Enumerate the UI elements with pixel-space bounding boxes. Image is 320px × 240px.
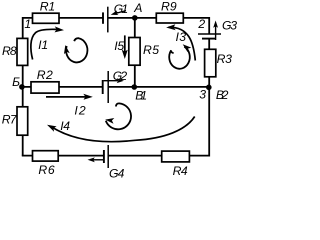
current arrow I1	[31, 26, 64, 59]
current arrow I4	[46, 117, 195, 142]
wire top-right: G1 to node 2	[108, 17, 209, 19]
resistor R5	[129, 38, 140, 66]
node A	[132, 15, 138, 21]
svg-text:G1: G1	[114, 2, 128, 16]
battery G3	[198, 34, 221, 39]
wire middle-right: G2 to node 3	[108, 86, 209, 88]
resistor R8	[17, 38, 28, 65]
svg-text:I1: I1	[38, 38, 48, 52]
mesh loop arrow (top-left mesh)	[62, 38, 87, 62]
svg-text:Б: Б	[12, 75, 20, 89]
svg-text:I4: I4	[60, 119, 70, 133]
svg-text:R3: R3	[217, 52, 233, 66]
resistor R6	[33, 151, 59, 161]
svg-text:I3: I3	[176, 30, 187, 44]
wire left: node 1 to bottom-left corner	[22, 17, 24, 156]
battery G4	[104, 145, 108, 168]
battery G4 emf arrow	[88, 157, 104, 162]
node B (left)	[19, 84, 25, 90]
battery G1 emf arrow	[110, 10, 126, 17]
svg-text:R8: R8	[2, 44, 17, 58]
resistor R4	[162, 151, 190, 162]
resistor R3	[205, 49, 216, 77]
svg-text:R6: R6	[38, 163, 55, 177]
svg-text:2: 2	[197, 17, 205, 31]
wire right-upper: node 2 to G3	[208, 17, 210, 34]
battery G3 emf arrow	[213, 21, 218, 41]
wire top-left: node 1 to G1	[23, 17, 103, 19]
svg-text:R7: R7	[2, 112, 18, 126]
node 3	[206, 85, 212, 91]
svg-text:B1: B1	[135, 89, 147, 103]
battery G1	[103, 7, 108, 33]
svg-text:1: 1	[24, 17, 31, 31]
node B1	[132, 84, 138, 90]
svg-text:G2: G2	[113, 69, 128, 83]
svg-text:R1: R1	[40, 0, 55, 14]
svg-text:R4: R4	[173, 164, 188, 178]
mesh loop arrow (bottom mesh)	[105, 103, 131, 129]
svg-text:I2: I2	[74, 103, 85, 117]
wire middle-left: node B to G2	[23, 86, 103, 88]
svg-text:R9: R9	[161, 0, 177, 13]
wire center vertical: node A to node B1	[134, 18, 136, 87]
current arrow I3	[166, 24, 195, 60]
wire bottom-left: corner to G4	[22, 155, 104, 157]
battery G2	[103, 71, 109, 103]
svg-text:R5: R5	[143, 43, 159, 57]
current arrow I5	[122, 35, 128, 59]
wire right-lower: G3 to bottom-right corner	[208, 39, 210, 157]
svg-text:3: 3	[199, 87, 206, 101]
resistor R9	[156, 13, 183, 23]
resistor R1	[33, 13, 60, 23]
mesh loop arrow (top-right mesh, counterclockwise)	[169, 42, 191, 69]
svg-text:A: A	[133, 1, 142, 15]
resistor R2	[31, 82, 59, 93]
svg-text:G4: G4	[109, 167, 125, 179]
svg-text:G3: G3	[222, 19, 237, 33]
current arrow I2	[46, 94, 93, 100]
wire bottom-right: G4 to corner	[108, 155, 209, 157]
svg-text:I5: I5	[114, 39, 124, 53]
svg-text:B2: B2	[216, 88, 229, 102]
battery G2 emf arrow	[104, 78, 124, 83]
resistor R7	[17, 107, 28, 135]
svg-text:R2: R2	[37, 68, 53, 82]
